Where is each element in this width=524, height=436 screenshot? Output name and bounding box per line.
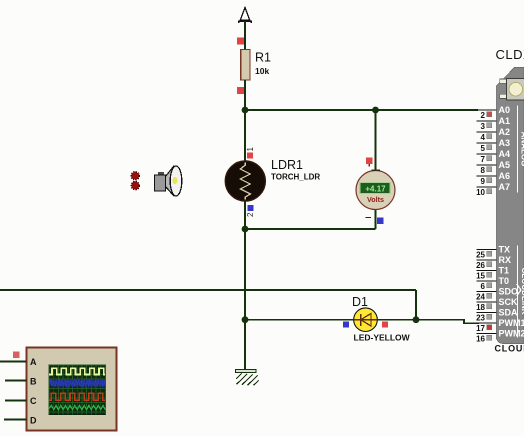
pin A0 (pin 2) [477,105,511,120]
probe marker blue (voltmeter -) [377,218,384,225]
svg-text:A0: A0 [499,105,511,115]
pin T1 (pin 15) [476,266,509,281]
chip button tab bottom [500,94,507,98]
svg-text:23: 23 [476,314,485,323]
power terminal VCC arrow [239,8,251,24]
svg-text:CLDX1: CLDX1 [496,47,524,62]
svg-text:TORCH_LDR: TORCH_LDR [271,173,320,182]
probe marker red (scope A) [13,352,20,359]
svg-text:TX: TX [499,245,511,255]
speaker icon [155,166,182,196]
LDR zigzag element [240,163,250,200]
svg-text:3: 3 [481,122,486,131]
svg-text:A3: A3 [499,138,511,148]
speaker knob [158,172,164,176]
svg-text:LED-YELLOW: LED-YELLOW [354,333,411,343]
svg-text:A6: A6 [499,171,511,181]
probe marker red (voltmeter +) [366,158,373,165]
svg-text:10k: 10k [255,66,269,76]
wire voltmeter bottom [375,208,377,229]
svg-text:A5: A5 [499,160,511,170]
digital bracket line [517,246,519,338]
svg-text:16: 16 [476,335,485,344]
analog bracket line [517,106,519,193]
oscilloscope body [27,348,117,431]
LDR1 pin 1 wire [244,110,246,162]
pin A5 (pin 8) [477,160,511,175]
probe marker red (LDR pin1) [247,153,253,159]
pin PWM1 (pin 17) [476,318,524,333]
probe marker blue (LDR pin2) [248,205,254,211]
junction node LED net left [242,316,249,323]
wire LDR bottom to voltmeter bottom [245,228,376,230]
pin SDA (pin 23) [476,308,518,323]
svg-text:A1: A1 [499,116,511,126]
svg-text:10: 10 [476,188,485,197]
svg-text:PWM2: PWM2 [499,329,524,339]
svg-text:9: 9 [481,177,486,186]
svg-text:SCK: SCK [499,297,519,307]
pin A4 (pin 7) [477,149,511,164]
speaker body [155,175,166,191]
wire voltmeter top [375,110,377,171]
LDR1 pin 2 wire [244,200,246,229]
svg-text:T1: T1 [499,266,510,276]
pin TX (pin 25) [476,245,510,260]
svg-text:A2: A2 [499,127,511,137]
wire LED net [245,320,479,324]
scope pin B wire [5,380,27,382]
probe marker red (D1 cathode) [382,322,388,328]
svg-text:R1: R1 [255,51,271,65]
pin PWM2 (pin 16) [476,329,524,344]
svg-text:B: B [30,377,37,387]
scope trace A [49,368,105,374]
svg-text:C: C [30,396,37,406]
rotary indicator dots [131,172,139,180]
svg-text:26: 26 [476,261,485,270]
svg-text:LDR1: LDR1 [271,158,303,172]
pin SCK (pin 18) [476,297,518,312]
svg-text:25: 25 [476,251,485,260]
svg-text:Volts: Volts [367,195,384,204]
svg-text:A: A [30,357,37,367]
scope trace B [50,380,106,387]
junction node LED net right [413,316,420,323]
voltmeter LCD [360,183,391,194]
scope screen [49,365,106,415]
svg-text:1: 1 [246,147,255,152]
pin A1 (pin 3) [477,116,511,131]
speaker highlight [173,177,178,185]
svg-text:2: 2 [246,212,255,217]
scope pin D wire [4,419,27,421]
scope trace D [49,405,105,409]
digital bracket chevron [517,284,521,296]
chip button tab top [500,79,507,83]
LED cathode bar [360,314,362,326]
pin A3 (pin 5) [477,138,511,153]
chip button cap [509,82,523,96]
ground symbol [236,370,259,386]
svg-text:RX: RX [499,255,512,265]
long wire at y=290 [0,289,416,291]
probe marker red (below R1) [237,87,244,94]
pin RX (pin 26) [476,255,511,270]
chip button body [506,79,524,101]
chip CLDX body [496,68,524,344]
wire down from y=290 to LED net [415,290,417,320]
svg-text:SDA: SDA [499,308,519,318]
resistor R1 body [241,50,250,81]
svg-text:PWM1: PWM1 [499,318,524,328]
svg-text:D: D [30,416,37,426]
minus terminal tick [366,217,372,219]
pin SDO (pin 24) [476,287,518,302]
svg-text:2: 2 [481,111,486,120]
svg-text:ANALOG: ANALOG [520,132,524,167]
svg-text:T0: T0 [499,276,510,286]
junction node LDR bottom [242,226,249,233]
LED D1 body [354,308,378,332]
svg-text:5: 5 [481,144,486,153]
scope trace C [49,393,105,400]
scope pin A wire [0,361,27,363]
wire R1 bottom to node [244,80,246,110]
speaker horn [166,167,174,196]
scope screen grid [49,365,106,415]
svg-text:18: 18 [476,303,485,312]
svg-text:D1: D1 [352,295,368,309]
svg-text:24: 24 [476,293,485,302]
svg-text:4: 4 [481,133,486,142]
LED diode triangle [361,314,371,327]
svg-text:15: 15 [476,272,485,281]
svg-text:6: 6 [481,282,486,291]
power pin wire [244,21,246,50]
svg-text:17: 17 [476,324,485,333]
svg-text:7: 7 [481,155,486,164]
svg-text:A4: A4 [499,149,511,159]
wire node row y=110 to chip pin A0 [245,109,478,111]
junction node at voltmeter top [372,107,379,114]
probe marker blue (D1 anode) [343,322,349,328]
wire LDR bottom down to ground [244,229,246,370]
svg-text:8: 8 [481,166,486,175]
svg-text:CLOUD1: CLOUD1 [495,344,524,354]
svg-text:A7: A7 [499,182,511,192]
LDR1 body [225,161,265,201]
probe marker red (above R1) [237,38,244,45]
LED pin wire through body [354,319,378,321]
plus terminal tick [372,169,381,171]
pin T0 (pin 6) [477,276,510,291]
svg-text:SDO: SDO [499,287,519,297]
pin A2 (pin 4) [477,127,511,142]
pin A7 (pin 10) [476,182,510,197]
voltmeter body [356,171,395,210]
pin A6 (pin 9) [477,171,511,186]
scope pin C wire [5,400,27,402]
svg-text:+4.17: +4.17 [365,185,386,194]
junction node at R1/LDR [242,107,249,114]
svg-text:CLOUDLINK: CLOUDLINK [520,267,524,314]
speaker cone face [170,166,182,196]
